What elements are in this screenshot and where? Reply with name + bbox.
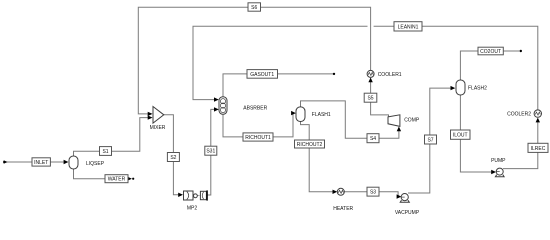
wire CO2OUT (FLASH2 top out) [460,50,522,80]
arrow RICHOUT1 into FLASH1 [291,111,296,115]
svg-text:INLET: INLET [34,160,48,166]
node S6 stream label [248,3,261,11]
svg-text:S3: S3 [370,190,376,196]
svg-text:RICHOUT2: RICHOUT2 [297,142,323,148]
svg-text:LIQSEP: LIQSEP [86,161,105,167]
arrow into MP2 [178,193,183,197]
node INLET stream label [32,158,50,166]
node CO2OUT stream label [478,47,503,55]
pump PUMP [491,158,506,177]
node ILREC stream label [528,143,548,152]
heater HEATER [333,188,353,212]
wire WATER (LIQSEP bottom out) [74,169,131,179]
wire S5 (COMP out to COOLER1) [371,81,389,117]
svg-text:RICHOUT1: RICHOUT1 [245,135,271,141]
svg-text:S5: S5 [367,96,373,102]
cooler COOLER2 [507,110,541,118]
svg-text:FLASH1: FLASH1 [312,112,331,118]
node RICHOUT1 stream label [243,133,273,141]
node S2 stream label [167,153,179,162]
arrow S5 into COOLER1 [368,78,372,83]
arrow S1 into MIXER [148,115,153,119]
wire S7 (VACPUMP out to FLASH2) [408,88,451,193]
arrow into LIQSEP [64,160,69,164]
svg-text:S1: S1 [102,149,108,155]
flash drum FLASH2 [456,80,487,95]
wire ILOUT (FLASH2 bottom to PUMP) [460,95,491,172]
arrow WATER outlet terminal [127,177,134,181]
svg-text:MP2: MP2 [187,206,198,212]
arrow RICHOUT2 into HEATER [333,190,338,194]
arrow S6 into MIXER [148,112,153,116]
svg-text:GASOUT1: GASOUT1 [250,72,274,78]
wire S3 (HEATER out to VACPUMP) [344,192,398,197]
wire S2 (MIXER out to MP2) [164,115,179,195]
wire GASOUT1 (ABSRBER top out) [223,73,335,97]
arrow S4 into COMP [397,127,401,132]
svg-text:S4: S4 [370,136,376,142]
node WATER stream label [105,175,128,183]
cooler COOLER1 [367,70,402,77]
svg-text:S7: S7 [427,137,433,143]
svg-text:HEATER: HEATER [333,206,353,212]
compressor COMP [388,115,420,127]
svg-text:MIXER: MIXER [150,125,166,131]
node S5 stream label [364,93,377,102]
column ABSRBER [219,97,268,114]
svg-text:S31: S31 [206,149,215,155]
vacuum pump VACPUMP [395,194,420,217]
svg-text:LEANIN1: LEANIN1 [398,24,419,30]
mixer MIXER [150,107,166,131]
svg-text:PUMP: PUMP [491,158,506,164]
svg-text:ABSRBER: ABSRBER [243,105,267,111]
svg-text:S2: S2 [170,155,176,161]
svg-text:WATER: WATER [108,177,126,183]
svg-text:COOLER2: COOLER2 [507,112,531,118]
node GASOUT1 stream label [247,70,278,79]
svg-text:COOLER1: COOLER1 [378,72,402,78]
arrow ILREC into COOLER2 [536,118,540,123]
svg-text:ILREC: ILREC [531,146,546,152]
flash drum FLASH1 [296,107,331,122]
wire S4 (FLASH1 top to COMP) [301,101,399,138]
node S3 stream label [367,187,379,196]
node S7 stream label [425,135,437,144]
node ILOUT stream label [451,130,471,139]
svg-text:COMP: COMP [404,117,420,123]
arrow LEANIN1 into ABSRBER [214,97,219,101]
svg-text:VACPUMP: VACPUMP [395,210,420,216]
wire RICHOUT1 (ABSRBER bottom to FLASH1) [223,113,293,137]
node LEANIN1 stream label [394,22,422,31]
svg-text:ILOUT: ILOUT [453,133,468,139]
node S31 stream label [205,146,217,155]
arrow S3 into VACPUMP [397,194,402,198]
wire S31 (MP2 out to ABSRBER) [207,109,215,195]
arrow S31 into ABSRBER [214,107,219,111]
wire S6 recycle (COOLER1 top to MIXER) [138,7,370,114]
arrow ILOUT into PUMP [491,170,496,174]
node S4 stream label [367,134,379,143]
svg-text:FLASH2: FLASH2 [468,85,487,91]
wire LEANIN1 (COOLER2 top to ABSRBER) [193,26,538,110]
node RICHOUT2 stream label [295,140,325,148]
arrow S7 into FLASH2 [451,86,456,90]
wire ILREC (PUMP out to COOLER2) [503,122,538,169]
separator LIQSEP [69,156,105,169]
wire S1 (LIQSEP top to MIXER) [74,118,149,156]
node S1 stream label [100,147,112,156]
svg-text:CO2OUT: CO2OUT [480,49,501,55]
wire INLET feed line [3,160,64,163]
pump MP2 [184,190,208,211]
wire RICHOUT2 (FLASH1 bottom to HEATER) [301,122,333,192]
svg-text:S6: S6 [251,5,257,11]
